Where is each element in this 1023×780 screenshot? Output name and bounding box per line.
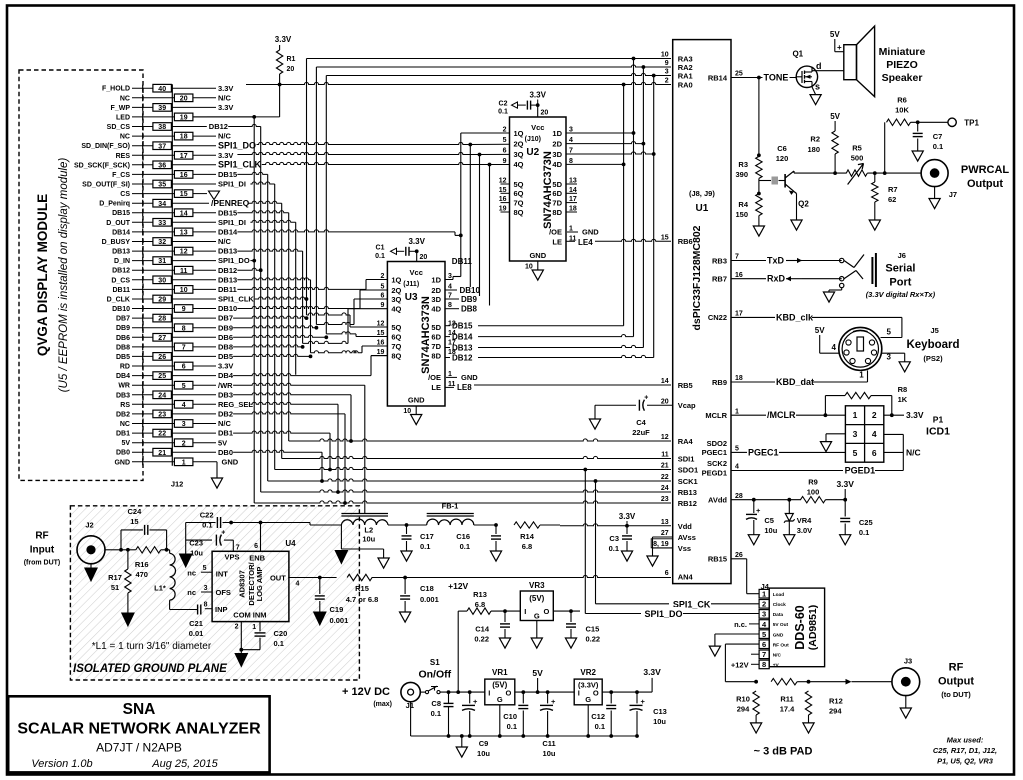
svg-text:20: 20 (287, 66, 295, 73)
svg-text:DB9: DB9 (461, 295, 478, 304)
svg-text:2: 2 (872, 410, 877, 420)
svg-text:R9: R9 (808, 478, 818, 487)
svg-text:0.1: 0.1 (595, 722, 605, 731)
svg-text:VPS: VPS (225, 553, 240, 562)
svg-text:RB6: RB6 (678, 237, 693, 246)
svg-text:3: 3 (665, 69, 669, 76)
svg-text:C24: C24 (128, 507, 143, 516)
svg-text:J6: J6 (898, 251, 906, 260)
svg-text:GND: GND (461, 373, 478, 382)
svg-text:5: 5 (182, 383, 186, 390)
svg-text:3D: 3D (552, 150, 562, 159)
svg-text:0.1: 0.1 (460, 542, 470, 551)
svg-text:RA4: RA4 (678, 437, 694, 446)
svg-text:27: 27 (158, 335, 166, 342)
svg-text:4: 4 (872, 429, 877, 439)
svg-text:VR2: VR2 (580, 668, 596, 677)
svg-text:DB8: DB8 (461, 305, 478, 314)
svg-text:PIEZO: PIEZO (886, 59, 918, 71)
svg-text:U2: U2 (526, 147, 539, 158)
svg-text:C5: C5 (764, 516, 774, 525)
svg-text:SPI1_DI: SPI1_DI (218, 218, 246, 227)
svg-text:RB7: RB7 (712, 275, 727, 284)
svg-text:17.4: 17.4 (780, 705, 795, 714)
svg-text:R8: R8 (898, 385, 908, 394)
svg-text:R1: R1 (287, 56, 296, 63)
svg-text:DB12: DB12 (218, 266, 237, 275)
svg-text:17: 17 (569, 196, 577, 203)
svg-text:F_WP: F_WP (111, 105, 131, 112)
svg-text:21: 21 (661, 463, 669, 470)
svg-text:DB13: DB13 (218, 247, 237, 256)
svg-text:40: 40 (158, 86, 166, 93)
svg-text:RS: RS (120, 402, 130, 409)
svg-text:11: 11 (448, 381, 456, 388)
svg-text:5V: 5V (830, 112, 840, 121)
svg-text:AVdd: AVdd (708, 496, 727, 505)
svg-text:4.7 or 6.8: 4.7 or 6.8 (346, 595, 379, 604)
svg-text:DB14: DB14 (218, 228, 238, 237)
svg-text:SDO1: SDO1 (678, 465, 698, 474)
svg-text:0.1: 0.1 (375, 253, 385, 260)
svg-text:(from DUT): (from DUT) (24, 560, 61, 567)
svg-text:4: 4 (832, 343, 837, 352)
svg-text:ENB: ENB (249, 554, 265, 563)
svg-text:RES: RES (116, 153, 131, 160)
svg-text:2: 2 (235, 624, 239, 631)
svg-text:2Q: 2Q (391, 286, 401, 295)
svg-text:4: 4 (182, 402, 186, 409)
svg-text:SD_OUT(F_SI): SD_OUT(F_SI) (82, 182, 130, 189)
svg-text:/OE: /OE (428, 373, 441, 382)
svg-text:26: 26 (735, 552, 743, 559)
svg-text:Output: Output (967, 178, 1003, 190)
svg-text:35: 35 (158, 182, 166, 189)
svg-text:+: + (641, 697, 646, 706)
svg-text:DB2: DB2 (116, 411, 130, 418)
svg-text:13: 13 (180, 230, 188, 237)
svg-text:7D: 7D (431, 342, 441, 351)
svg-text:0.22: 0.22 (474, 635, 489, 644)
svg-text:17: 17 (180, 153, 188, 160)
svg-text:/WR: /WR (218, 381, 233, 390)
svg-text:470: 470 (135, 570, 148, 579)
svg-text:7Q: 7Q (514, 198, 524, 207)
svg-text:18: 18 (735, 375, 743, 382)
svg-text:TONE: TONE (764, 73, 789, 83)
svg-text:DB9: DB9 (218, 323, 233, 332)
svg-text:VR1: VR1 (492, 668, 508, 677)
svg-text:C18: C18 (420, 584, 434, 593)
svg-text:28: 28 (735, 493, 743, 500)
svg-text:O: O (543, 607, 549, 616)
svg-text:7: 7 (448, 293, 452, 300)
svg-text:0.1: 0.1 (609, 544, 619, 553)
svg-text:PGEC1: PGEC1 (702, 448, 727, 457)
svg-text:NC: NC (120, 95, 130, 102)
svg-text:U3: U3 (405, 292, 418, 303)
svg-text:294: 294 (829, 707, 842, 716)
svg-text:+: + (551, 697, 556, 706)
svg-text:RF: RF (949, 662, 964, 674)
svg-text:AD7JT / N2APB: AD7JT / N2APB (96, 741, 182, 755)
svg-text:21: 21 (158, 450, 166, 457)
svg-text:5D: 5D (431, 323, 441, 332)
svg-text:2D: 2D (431, 286, 441, 295)
svg-text:1: 1 (252, 624, 256, 631)
svg-text:DB5: DB5 (116, 354, 130, 361)
svg-text:WR: WR (118, 383, 130, 390)
svg-text:J3: J3 (904, 657, 912, 666)
svg-text:28: 28 (158, 316, 166, 323)
svg-text:10u: 10u (362, 535, 375, 544)
svg-text:8Q: 8Q (391, 351, 401, 360)
svg-text:C23: C23 (189, 538, 203, 547)
svg-text:N/C: N/C (218, 93, 232, 102)
svg-text:DB2: DB2 (218, 410, 233, 419)
svg-text:DB8: DB8 (116, 344, 130, 351)
svg-text:DB5: DB5 (218, 352, 233, 361)
svg-text:33: 33 (158, 220, 166, 227)
svg-text:Data: Data (773, 612, 784, 618)
svg-text:31: 31 (158, 258, 166, 265)
svg-text:4Q: 4Q (391, 305, 401, 314)
svg-text:18: 18 (569, 206, 577, 213)
svg-text:DB11: DB11 (218, 285, 237, 294)
svg-text:P1, U5, Q2, VR3: P1, U5, Q2, VR3 (937, 756, 994, 765)
svg-text:O: O (505, 689, 511, 698)
svg-text:VR3: VR3 (529, 581, 545, 590)
svg-text:SPI1_DO: SPI1_DO (645, 609, 683, 619)
svg-text:20: 20 (420, 254, 428, 261)
svg-text:G: G (585, 695, 591, 704)
svg-text:R14: R14 (520, 532, 535, 541)
svg-text:3: 3 (762, 610, 766, 619)
svg-text:12: 12 (499, 178, 507, 185)
svg-text:3: 3 (182, 421, 186, 428)
svg-text:D_OUT: D_OUT (106, 220, 130, 227)
svg-text:38: 38 (158, 124, 166, 131)
svg-text:PEGD1: PEGD1 (702, 469, 727, 478)
svg-text:24: 24 (158, 392, 166, 399)
svg-text:DB15: DB15 (218, 208, 237, 217)
svg-text:32: 32 (158, 239, 166, 246)
svg-text:Input: Input (30, 545, 55, 556)
svg-text:C6: C6 (777, 144, 787, 153)
svg-text:7: 7 (236, 545, 240, 552)
svg-text:13: 13 (661, 519, 669, 526)
svg-text:AN4: AN4 (678, 573, 694, 582)
svg-text:6: 6 (254, 543, 258, 550)
svg-text:16: 16 (377, 340, 385, 347)
svg-text:5V: 5V (815, 326, 825, 335)
svg-text:(max): (max) (373, 701, 392, 708)
svg-text:NC: NC (120, 134, 130, 141)
svg-text:12: 12 (661, 434, 669, 441)
svg-text:LE8: LE8 (457, 383, 472, 392)
svg-text:*L1 = 1 turn 3/16" diameter: *L1 = 1 turn 3/16" diameter (92, 641, 212, 652)
svg-text:34: 34 (158, 201, 166, 208)
svg-text:1: 1 (762, 590, 766, 599)
svg-text:/MCLR: /MCLR (767, 410, 796, 420)
svg-text:5D: 5D (552, 180, 562, 189)
svg-text:KBD_dat: KBD_dat (776, 377, 814, 387)
svg-text:5V Out: 5V Out (773, 622, 789, 628)
svg-text:6: 6 (872, 448, 877, 458)
svg-text:Aug 25, 2015: Aug 25, 2015 (151, 758, 218, 770)
svg-text:5V: 5V (532, 668, 543, 678)
svg-text:3Q: 3Q (391, 295, 401, 304)
svg-text:0.1: 0.1 (933, 142, 943, 151)
svg-text:(PS2): (PS2) (923, 354, 943, 363)
svg-text:23: 23 (158, 412, 166, 419)
svg-text:SPI1_CLK: SPI1_CLK (218, 295, 254, 304)
svg-text:J5: J5 (931, 326, 939, 335)
svg-text:5: 5 (887, 328, 892, 337)
svg-text:6: 6 (380, 293, 384, 300)
svg-text:DB7: DB7 (116, 316, 130, 323)
svg-text:O: O (593, 689, 599, 698)
svg-text:RB12: RB12 (678, 499, 697, 508)
svg-text:3.3V: 3.3V (218, 362, 233, 371)
svg-text:16: 16 (735, 272, 743, 279)
svg-text:DB9: DB9 (116, 325, 130, 332)
svg-text:DDS-60: DDS-60 (793, 605, 807, 650)
svg-text:5V: 5V (218, 438, 227, 447)
svg-text:5: 5 (762, 630, 766, 639)
svg-text:8D: 8D (552, 208, 562, 217)
svg-text:6: 6 (503, 148, 507, 155)
svg-text:dsPIC33FJ128MC802: dsPIC33FJ128MC802 (691, 225, 703, 330)
svg-text:0.1: 0.1 (420, 542, 430, 551)
svg-text:0.1: 0.1 (431, 709, 441, 718)
svg-text:51: 51 (111, 583, 119, 592)
svg-text:GND: GND (529, 251, 546, 260)
svg-text:N/C: N/C (906, 447, 921, 457)
svg-text:F_HOLD: F_HOLD (102, 86, 130, 93)
svg-text:RA0: RA0 (678, 80, 693, 89)
svg-text:3D: 3D (431, 295, 441, 304)
svg-text:0.01: 0.01 (189, 629, 204, 638)
svg-text:DB4: DB4 (218, 371, 234, 380)
svg-text:10u: 10u (477, 749, 490, 758)
svg-text:SNA: SNA (123, 701, 156, 718)
svg-text:DB15: DB15 (452, 322, 473, 331)
svg-text:7: 7 (762, 650, 766, 659)
svg-text:N/C: N/C (773, 653, 782, 659)
svg-text:AD8307: AD8307 (238, 570, 247, 598)
svg-text:20: 20 (180, 95, 188, 102)
svg-text:3: 3 (569, 127, 573, 134)
svg-text:+: + (756, 506, 761, 515)
svg-text:C12: C12 (591, 712, 605, 721)
svg-text:9: 9 (503, 158, 507, 165)
svg-text:R11: R11 (780, 695, 793, 704)
svg-text:6Q: 6Q (391, 332, 401, 341)
svg-text:d: d (816, 61, 822, 71)
svg-text:8: 8 (204, 602, 208, 609)
svg-text:10u: 10u (764, 526, 777, 535)
svg-text:24: 24 (661, 485, 669, 492)
svg-text:RxD: RxD (767, 274, 786, 284)
svg-text:R12: R12 (829, 697, 843, 706)
svg-text:FB-1: FB-1 (442, 502, 459, 511)
svg-text:0.001: 0.001 (420, 595, 439, 604)
svg-text:14: 14 (661, 378, 669, 385)
svg-text:C1: C1 (376, 245, 385, 252)
svg-text:11: 11 (180, 268, 188, 275)
svg-text:DB10: DB10 (218, 304, 237, 313)
svg-text:6.8: 6.8 (522, 542, 532, 551)
svg-text:ISOLATED GROUND PLANE: ISOLATED GROUND PLANE (73, 663, 227, 675)
svg-text:2D: 2D (552, 139, 562, 148)
svg-text:R17: R17 (108, 573, 122, 582)
svg-text:On/Off: On/Off (418, 669, 451, 681)
svg-text:10u: 10u (190, 548, 203, 557)
svg-text:3.3V: 3.3V (275, 35, 292, 44)
svg-text:22: 22 (661, 474, 669, 481)
svg-text:22uF: 22uF (632, 428, 650, 437)
svg-text:RB5: RB5 (678, 381, 693, 390)
svg-text:3.3V: 3.3V (906, 410, 924, 420)
svg-text:/PENREQ: /PENREQ (211, 198, 250, 208)
svg-text:S1: S1 (430, 658, 440, 667)
svg-text:15: 15 (130, 517, 138, 526)
svg-text:(AD9851): (AD9851) (807, 605, 819, 651)
svg-text:C7: C7 (933, 132, 943, 141)
svg-text:+: + (473, 697, 478, 706)
svg-text:Clock: Clock (773, 602, 786, 608)
svg-text:10K: 10K (895, 106, 909, 115)
svg-text:RA1: RA1 (678, 71, 693, 80)
svg-text:LE: LE (431, 383, 441, 392)
svg-text:SD_CS: SD_CS (107, 124, 131, 131)
svg-text:DB4: DB4 (116, 373, 130, 380)
svg-text:5: 5 (853, 448, 858, 458)
svg-text:INT: INT (216, 569, 229, 578)
svg-text:2: 2 (665, 78, 669, 85)
svg-text:GND: GND (582, 228, 599, 237)
svg-text:(5V): (5V) (529, 594, 544, 603)
svg-text:8Q: 8Q (514, 208, 524, 217)
svg-text:+: + (644, 395, 648, 402)
svg-text:DB11: DB11 (112, 287, 130, 294)
svg-text:TxD: TxD (767, 256, 785, 266)
svg-text:~ 3 dB PAD: ~ 3 dB PAD (754, 746, 813, 758)
svg-text:I: I (488, 689, 490, 698)
svg-text:I: I (524, 607, 526, 616)
svg-text:n.c.: n.c. (734, 620, 747, 629)
svg-text:Port: Port (889, 277, 911, 289)
svg-text:Max used:: Max used: (947, 736, 984, 745)
svg-text:0.1: 0.1 (507, 722, 517, 731)
svg-text:8: 8 (182, 325, 186, 332)
svg-text:DB10: DB10 (112, 306, 130, 313)
svg-text:SD_DIN(F_SO): SD_DIN(F_SO) (81, 143, 130, 150)
svg-text:11: 11 (661, 452, 669, 459)
svg-text:SPI1_DI: SPI1_DI (218, 180, 246, 189)
svg-text:Version 1.0b: Version 1.0b (31, 758, 92, 770)
svg-text:6: 6 (762, 640, 766, 649)
svg-text:9: 9 (182, 306, 186, 313)
svg-text:SPI1_DO: SPI1_DO (218, 140, 256, 150)
svg-text:1: 1 (448, 371, 452, 378)
svg-text:DB12: DB12 (112, 268, 130, 275)
svg-text:10u: 10u (653, 717, 666, 726)
svg-text:3: 3 (887, 353, 892, 362)
svg-text:C13: C13 (653, 707, 667, 716)
svg-text:DB8: DB8 (218, 343, 233, 352)
svg-text:nc: nc (187, 588, 196, 597)
svg-text:390: 390 (735, 170, 748, 179)
svg-text:+V: +V (773, 663, 780, 669)
svg-text:PGED1: PGED1 (845, 466, 876, 476)
svg-text:5Q: 5Q (391, 323, 401, 332)
svg-text:COM: COM (233, 611, 251, 620)
svg-text:R2: R2 (810, 135, 820, 144)
svg-text:3.3V: 3.3V (218, 103, 233, 112)
svg-text:15: 15 (499, 187, 507, 194)
svg-text:DB7: DB7 (218, 314, 233, 323)
svg-text:nc: nc (187, 568, 196, 577)
svg-text:D_CS: D_CS (111, 277, 130, 284)
svg-text:294: 294 (737, 705, 750, 714)
svg-text:DB6: DB6 (116, 335, 130, 342)
svg-text:J12: J12 (171, 480, 184, 489)
svg-text:DB0: DB0 (218, 448, 233, 457)
svg-text:C25: C25 (859, 518, 873, 527)
svg-text:C25, R17, D1, J12,: C25, R17, D1, J12, (933, 746, 997, 755)
svg-text:6Q: 6Q (514, 189, 524, 198)
svg-text:14: 14 (180, 210, 188, 217)
svg-text:SN74AHC373N: SN74AHC373N (420, 296, 432, 374)
svg-text:C14: C14 (475, 625, 490, 634)
svg-text:R16: R16 (135, 560, 149, 569)
svg-text:29: 29 (158, 297, 166, 304)
svg-text:10: 10 (661, 52, 669, 59)
svg-text:OFS: OFS (216, 588, 231, 597)
svg-text:5Q: 5Q (514, 180, 524, 189)
svg-text:3Q: 3Q (514, 150, 524, 159)
svg-text:4: 4 (569, 137, 573, 144)
svg-text:Miniature: Miniature (879, 46, 926, 58)
svg-text:4Q: 4Q (514, 160, 524, 169)
svg-text:1K: 1K (898, 395, 908, 404)
svg-text:DB13: DB13 (218, 275, 237, 284)
svg-text:C16: C16 (456, 532, 470, 541)
svg-text:R6: R6 (897, 96, 907, 105)
svg-text:8D: 8D (431, 351, 441, 360)
svg-text:7D: 7D (552, 198, 562, 207)
svg-text:0.1: 0.1 (274, 639, 284, 648)
svg-text:16: 16 (499, 196, 507, 203)
svg-text:2: 2 (380, 273, 384, 280)
svg-text:R5: R5 (852, 144, 862, 153)
svg-text:R13: R13 (473, 590, 487, 599)
svg-text:18: 18 (180, 134, 188, 141)
svg-text:RF: RF (35, 531, 48, 542)
svg-text:15: 15 (661, 235, 669, 242)
svg-text:0.1: 0.1 (498, 109, 508, 116)
svg-text:P1: P1 (933, 415, 944, 425)
svg-text:Vdd: Vdd (678, 522, 693, 531)
svg-text:Q1: Q1 (792, 50, 803, 59)
svg-text:D_Penirq: D_Penirq (99, 201, 130, 208)
svg-text:SDI1: SDI1 (678, 454, 695, 463)
svg-text:1: 1 (569, 226, 573, 233)
svg-text:5V: 5V (830, 30, 840, 39)
svg-text:RB14: RB14 (708, 73, 728, 82)
